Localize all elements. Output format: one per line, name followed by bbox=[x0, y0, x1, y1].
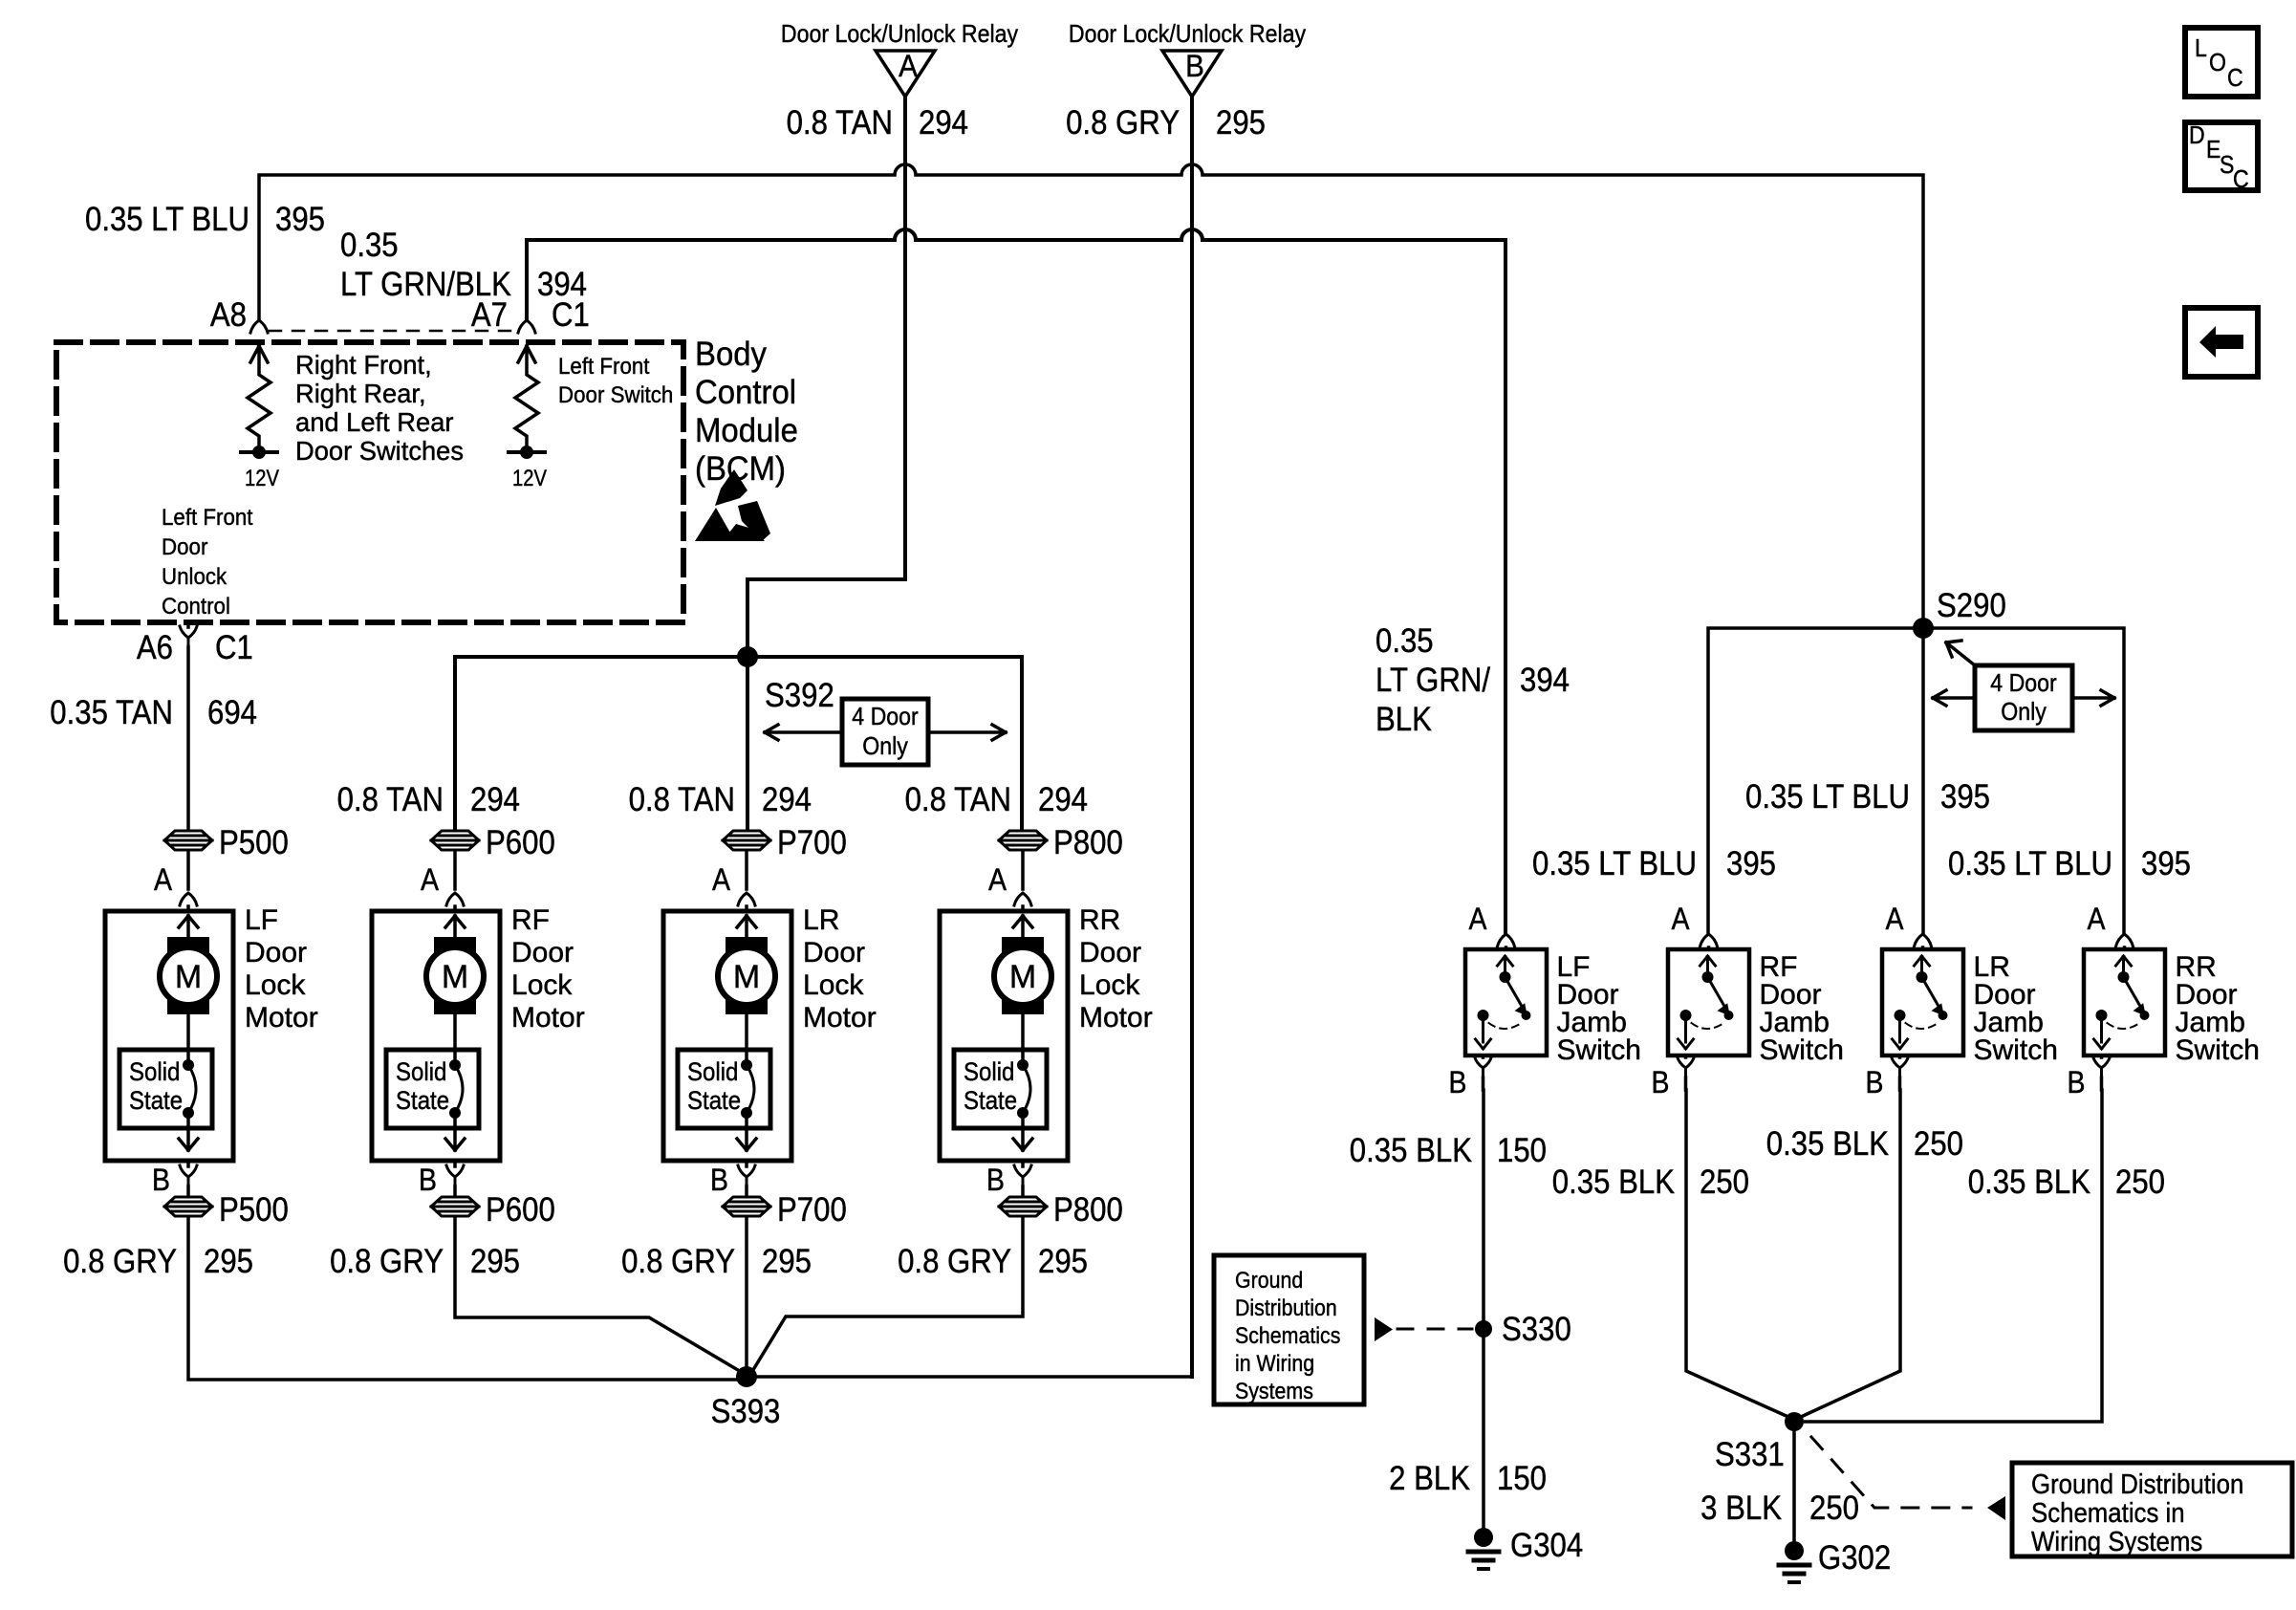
svg-text:State: State bbox=[687, 1086, 741, 1115]
svg-text:295: 295 bbox=[762, 1243, 812, 1280]
svg-text:294: 294 bbox=[762, 781, 812, 818]
RF door jamb switch bbox=[1668, 934, 1749, 1090]
wire: LR jamb B to S331 bbox=[1801, 1090, 1900, 1417]
connector P500 (upper) bbox=[164, 831, 212, 850]
wire: S331 to G302 (3 BLK 250) bbox=[1792, 1422, 1796, 1541]
svg-text:Door Switches: Door Switches bbox=[295, 436, 464, 466]
svg-text:Motor: Motor bbox=[245, 1002, 318, 1033]
wire: BCM A6 to P500 (0.35 TAN 694) bbox=[186, 622, 190, 828]
svg-text:0.35 BLK: 0.35 BLK bbox=[1552, 1164, 1675, 1201]
svg-text:Motor: Motor bbox=[1079, 1002, 1153, 1033]
svg-text:Lock: Lock bbox=[1079, 969, 1140, 1001]
svg-text:Body: Body bbox=[695, 336, 767, 373]
svg-text:G304: G304 bbox=[1510, 1527, 1583, 1564]
svg-text:250: 250 bbox=[1914, 1125, 1963, 1163]
svg-text:P600: P600 bbox=[486, 1191, 555, 1229]
svg-text:250: 250 bbox=[1809, 1490, 1859, 1527]
wire: S392 bus to RF / LR / RR motors bbox=[455, 657, 1022, 828]
svg-text:Control: Control bbox=[695, 374, 796, 411]
svg-text:12V: 12V bbox=[512, 466, 547, 491]
svg-text:O: O bbox=[2209, 48, 2226, 76]
svg-text:Motor: Motor bbox=[803, 1002, 877, 1033]
svg-text:P700: P700 bbox=[777, 1191, 847, 1229]
svg-text:4 Door: 4 Door bbox=[852, 702, 919, 730]
svg-text:P600: P600 bbox=[486, 824, 555, 861]
svg-text:294: 294 bbox=[470, 781, 520, 818]
svg-text:P700: P700 bbox=[777, 824, 847, 861]
svg-text:Only: Only bbox=[862, 731, 908, 760]
svg-text:S393: S393 bbox=[711, 1393, 781, 1430]
svg-text:0.35 BLK: 0.35 BLK bbox=[1968, 1164, 2090, 1201]
ESD sensitive symbol bbox=[695, 469, 770, 541]
svg-text:D: D bbox=[2189, 120, 2205, 149]
svg-text:C: C bbox=[2233, 164, 2249, 193]
svg-text:A8: A8 bbox=[210, 296, 247, 334]
svg-text:0.8 TAN: 0.8 TAN bbox=[787, 104, 893, 141]
wire: RF motor B to S393 bbox=[455, 1217, 743, 1373]
svg-text:RR: RR bbox=[1079, 904, 1120, 936]
svg-text:694: 694 bbox=[207, 694, 257, 731]
svg-text:in Wiring: in Wiring bbox=[1235, 1351, 1314, 1377]
svg-text:395: 395 bbox=[1940, 778, 1990, 816]
svg-text:395: 395 bbox=[275, 201, 325, 238]
svg-text:Ground Distribution: Ground Distribution bbox=[2031, 1469, 2243, 1500]
svg-text:150: 150 bbox=[1497, 1132, 1547, 1169]
svg-text:BLK: BLK bbox=[1375, 701, 1432, 738]
svg-text:Module: Module bbox=[695, 412, 798, 449]
svg-text:LF: LF bbox=[245, 904, 278, 936]
svg-text:294: 294 bbox=[1038, 781, 1088, 818]
svg-text:Door Switch: Door Switch bbox=[558, 382, 673, 408]
svg-text:0.35: 0.35 bbox=[1375, 622, 1434, 660]
svg-text:B: B bbox=[1449, 1065, 1467, 1099]
dashed reference line from S331 bbox=[1811, 1437, 1971, 1508]
splice S330 bbox=[1475, 1320, 1492, 1338]
RF door lock motor bbox=[372, 851, 500, 1196]
svg-text:Solid: Solid bbox=[964, 1057, 1014, 1086]
resistor: left front door switch pull-up bbox=[515, 346, 538, 450]
svg-text:B: B bbox=[152, 1163, 170, 1197]
svg-text:Unlock: Unlock bbox=[162, 564, 227, 590]
svg-text:Systems: Systems bbox=[1235, 1379, 1313, 1404]
svg-text:Door Lock/Unlock Relay: Door Lock/Unlock Relay bbox=[1069, 19, 1306, 48]
svg-text:RF: RF bbox=[511, 904, 550, 936]
svg-text:M: M bbox=[733, 959, 760, 995]
svg-text:0.8 TAN: 0.8 TAN bbox=[905, 781, 1011, 818]
splice S393 bbox=[736, 1366, 757, 1387]
svg-text:Left Front: Left Front bbox=[162, 505, 253, 531]
svg-text:395: 395 bbox=[2141, 845, 2191, 882]
svg-text:S330: S330 bbox=[1502, 1311, 1571, 1348]
Body Control Module dashed outline bbox=[56, 342, 683, 622]
connector P800 (upper) bbox=[999, 831, 1047, 850]
svg-text:4 Door: 4 Door bbox=[1990, 668, 2057, 697]
wire: RR motor B to S393 bbox=[751, 1217, 1023, 1373]
svg-text:Door: Door bbox=[162, 534, 207, 560]
svg-text:Schematics in: Schematics in bbox=[2031, 1498, 2185, 1529]
svg-text:0.35 LT BLU: 0.35 LT BLU bbox=[85, 201, 249, 238]
4 Door Only arrows (S290) bbox=[1933, 690, 1975, 706]
4 Door Only box (S290) bbox=[1975, 665, 2072, 730]
wire: S393 to relay B wire bbox=[747, 1375, 1192, 1379]
splice S331 bbox=[1785, 1412, 1804, 1431]
svg-text:B: B bbox=[1652, 1065, 1670, 1099]
svg-text:294: 294 bbox=[919, 104, 968, 141]
connector P500 (lower) bbox=[164, 1197, 212, 1216]
svg-text:Lock: Lock bbox=[803, 969, 864, 1001]
svg-text:Right Rear,: Right Rear, bbox=[295, 379, 426, 408]
svg-text:B: B bbox=[2068, 1065, 2086, 1099]
svg-text:A: A bbox=[154, 862, 173, 897]
Ground Distribution Schematics box (left) bbox=[1214, 1255, 1364, 1404]
svg-text:State: State bbox=[964, 1086, 1017, 1115]
svg-text:A6: A6 bbox=[137, 629, 173, 666]
wire: 0.35 LT BLU 395 bus (A8 to S290) with hops bbox=[259, 164, 1923, 628]
splice S392 bbox=[737, 646, 758, 667]
svg-text:295: 295 bbox=[1216, 104, 1266, 141]
svg-text:A: A bbox=[988, 862, 1007, 897]
wire: LF motor B to S393 bbox=[188, 1217, 736, 1380]
wire: relay A to S392 (0.8 TAN 294) bbox=[747, 97, 905, 657]
svg-text:0.8 TAN: 0.8 TAN bbox=[337, 781, 444, 818]
wire: 0.35 LT GRN/BLK 394 bus (A7 to LF jamb) with hops bbox=[527, 229, 1505, 933]
svg-text:B: B bbox=[1866, 1065, 1884, 1099]
LR door jamb switch bbox=[1882, 934, 1963, 1090]
svg-text:0.8 GRY: 0.8 GRY bbox=[63, 1243, 177, 1280]
svg-text:0.35 TAN: 0.35 TAN bbox=[50, 694, 173, 731]
svg-text:P500: P500 bbox=[219, 1191, 289, 1229]
svg-text:0.8 GRY: 0.8 GRY bbox=[1066, 104, 1180, 141]
svg-text:M: M bbox=[1009, 959, 1036, 995]
svg-text:0.35 BLK: 0.35 BLK bbox=[1766, 1125, 1889, 1163]
svg-text:Motor: Motor bbox=[511, 1002, 585, 1033]
relay connector triangle B bbox=[1162, 49, 1222, 97]
svg-text:C1: C1 bbox=[552, 296, 590, 334]
svg-text:Only: Only bbox=[2001, 697, 2047, 726]
svg-text:394: 394 bbox=[1520, 662, 1570, 699]
connector chevron A8 bbox=[250, 320, 268, 333]
wire: relay B to S393 (0.8 GRY 295) bbox=[1190, 97, 1194, 1377]
svg-text:A: A bbox=[421, 862, 440, 897]
svg-text:A: A bbox=[899, 49, 918, 83]
svg-text:S392: S392 bbox=[765, 677, 834, 714]
relay connector triangle A bbox=[876, 49, 935, 97]
svg-text:150: 150 bbox=[1497, 1460, 1547, 1497]
svg-text:0.35 LT BLU: 0.35 LT BLU bbox=[1948, 845, 2112, 882]
svg-text:A: A bbox=[1886, 902, 1905, 936]
back arrow button bbox=[2185, 308, 2258, 377]
svg-text:2 BLK: 2 BLK bbox=[1389, 1460, 1470, 1497]
svg-text:and Left Rear: and Left Rear bbox=[295, 407, 454, 437]
svg-text:Switch: Switch bbox=[1557, 1034, 1641, 1066]
svg-text:Door: Door bbox=[511, 937, 574, 968]
svg-text:A: A bbox=[1469, 902, 1488, 936]
svg-text:G302: G302 bbox=[1818, 1539, 1891, 1577]
svg-text:B: B bbox=[710, 1163, 728, 1197]
svg-text:S290: S290 bbox=[1937, 587, 2006, 624]
svg-text:P800: P800 bbox=[1053, 1191, 1123, 1229]
svg-text:Switch: Switch bbox=[2176, 1034, 2260, 1066]
svg-text:C1: C1 bbox=[215, 629, 253, 666]
svg-text:A: A bbox=[712, 862, 731, 897]
svg-text:395: 395 bbox=[1726, 845, 1776, 882]
svg-text:State: State bbox=[396, 1086, 449, 1115]
svg-text:B: B bbox=[419, 1163, 437, 1197]
splice S290 bbox=[1913, 618, 1934, 639]
svg-text:A: A bbox=[1672, 902, 1691, 936]
ground G302 bbox=[1779, 1541, 1809, 1582]
svg-text:3 BLK: 3 BLK bbox=[1700, 1490, 1782, 1527]
svg-text:B: B bbox=[1185, 49, 1204, 83]
svg-text:P500: P500 bbox=[219, 824, 289, 861]
svg-text:Door: Door bbox=[803, 937, 865, 968]
svg-text:250: 250 bbox=[2115, 1164, 2165, 1201]
svg-text:L: L bbox=[2195, 33, 2207, 62]
Ground Distribution Schematics box (right) bbox=[2012, 1463, 2292, 1556]
svg-text:LR: LR bbox=[803, 904, 839, 936]
ground G304 bbox=[1468, 1528, 1499, 1569]
svg-text:Wiring Systems: Wiring Systems bbox=[2031, 1527, 2202, 1557]
RR door jamb switch bbox=[2084, 934, 2165, 1090]
dashed reference line to S330 bbox=[1397, 1328, 1472, 1331]
svg-text:Switch: Switch bbox=[1760, 1034, 1844, 1066]
svg-text:Door: Door bbox=[245, 937, 307, 968]
svg-text:B: B bbox=[986, 1163, 1005, 1197]
connector chevron A7 bbox=[518, 320, 535, 333]
svg-text:Door Lock/Unlock Relay: Door Lock/Unlock Relay bbox=[781, 19, 1018, 48]
svg-text:State: State bbox=[129, 1086, 183, 1115]
wire: RR jamb B to S331 bbox=[1794, 1090, 2102, 1422]
wire: S290 bus to RF / LR / RR jamb switches bbox=[1708, 628, 2124, 933]
svg-text:Solid: Solid bbox=[129, 1057, 180, 1086]
4 Door Only box (S392) bbox=[842, 699, 928, 765]
resistor: right front/right rear/left rear door switches pull-up bbox=[248, 346, 271, 450]
svg-text:0.35: 0.35 bbox=[340, 227, 399, 264]
thin dashed connector line A8-A7 bbox=[270, 330, 516, 333]
connector P600 (lower) bbox=[431, 1197, 479, 1216]
svg-text:LT GRN/: LT GRN/ bbox=[1375, 662, 1490, 699]
svg-text:12V: 12V bbox=[245, 466, 279, 491]
svg-text:Right Front,: Right Front, bbox=[295, 350, 432, 380]
svg-text:0.8 GRY: 0.8 GRY bbox=[898, 1243, 1011, 1280]
svg-text:Solid: Solid bbox=[687, 1057, 738, 1086]
svg-text:S331: S331 bbox=[1715, 1436, 1785, 1473]
LF door lock motor bbox=[105, 851, 233, 1196]
svg-text:0.35 BLK: 0.35 BLK bbox=[1350, 1132, 1472, 1169]
svg-text:295: 295 bbox=[204, 1243, 253, 1280]
connector P700 (upper) bbox=[723, 831, 770, 850]
svg-text:0.8 GRY: 0.8 GRY bbox=[621, 1243, 735, 1280]
svg-text:M: M bbox=[175, 959, 202, 995]
connector P700 (lower) bbox=[723, 1197, 770, 1216]
svg-text:Door: Door bbox=[1079, 937, 1141, 968]
connector chevron A6 bbox=[180, 626, 197, 647]
svg-text:0.35 LT BLU: 0.35 LT BLU bbox=[1745, 778, 1910, 816]
svg-text:Switch: Switch bbox=[1974, 1034, 2058, 1066]
svg-text:Solid: Solid bbox=[396, 1057, 446, 1086]
svg-text:M: M bbox=[442, 959, 468, 995]
svg-text:Schematics: Schematics bbox=[1235, 1323, 1340, 1349]
svg-text:Lock: Lock bbox=[245, 969, 306, 1001]
LF door jamb switch bbox=[1465, 934, 1547, 1090]
wire: LR motor B to S393 bbox=[745, 1217, 748, 1377]
svg-text:0.35 LT BLU: 0.35 LT BLU bbox=[1532, 845, 1697, 882]
svg-text:Lock: Lock bbox=[511, 969, 573, 1001]
svg-text:Distribution: Distribution bbox=[1235, 1295, 1337, 1321]
connector P600 (upper) bbox=[431, 831, 479, 850]
svg-text:Ground: Ground bbox=[1235, 1268, 1303, 1294]
svg-text:250: 250 bbox=[1700, 1164, 1749, 1201]
4 Door Only arrows (S392) bbox=[765, 725, 842, 740]
LR door lock motor bbox=[663, 851, 791, 1196]
RR door lock motor bbox=[940, 851, 1068, 1196]
wire: RF jamb B to S331 bbox=[1686, 1090, 1788, 1417]
connector P800 (lower) bbox=[999, 1197, 1047, 1216]
svg-text:A: A bbox=[2088, 902, 2107, 936]
svg-text:295: 295 bbox=[1038, 1243, 1088, 1280]
svg-text:295: 295 bbox=[470, 1243, 520, 1280]
svg-text:0.8 GRY: 0.8 GRY bbox=[330, 1243, 444, 1280]
wire: LF jamb B to S330 to G304 (0.35 BLK 150 / 2 BLK 150) bbox=[1482, 1090, 1485, 1528]
svg-text:Control: Control bbox=[162, 594, 230, 620]
LOC button bbox=[2185, 28, 2258, 97]
svg-text:C: C bbox=[2227, 63, 2243, 92]
svg-text:A7: A7 bbox=[471, 296, 508, 334]
DESC button bbox=[2185, 120, 2258, 193]
svg-text:P800: P800 bbox=[1053, 824, 1123, 861]
svg-text:0.8 TAN: 0.8 TAN bbox=[629, 781, 735, 818]
svg-text:Left Front: Left Front bbox=[558, 354, 650, 380]
